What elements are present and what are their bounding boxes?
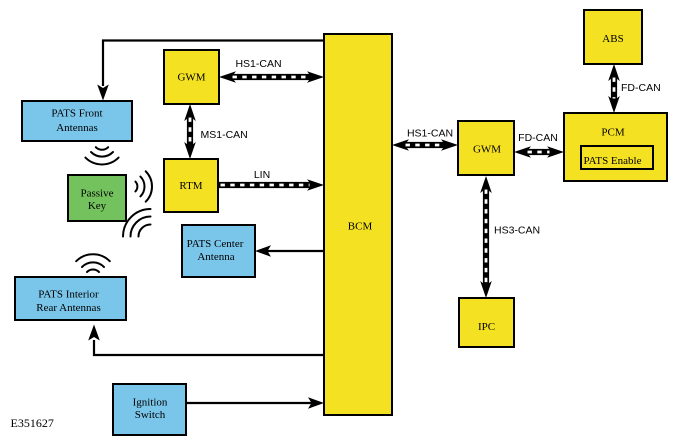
svg-text:Key: Key (88, 200, 107, 212)
radio waves from PATS Interior Rear Antennas (up) (76, 254, 110, 272)
svg-text:HS1-CAN: HS1-CAN (407, 128, 453, 140)
svg-text:BCM: BCM (348, 221, 373, 233)
svg-text:GWM: GWM (473, 144, 501, 156)
svg-text:Passive: Passive (81, 188, 114, 200)
svg-text:HS1-CAN: HS1-CAN (235, 58, 281, 70)
svg-text:RTM: RTM (179, 180, 202, 192)
svg-text:Antennas: Antennas (56, 122, 98, 134)
svg-text:MS1-CAN: MS1-CAN (201, 129, 248, 141)
svg-text:PCM: PCM (601, 127, 624, 139)
svg-text:Antenna: Antenna (197, 251, 234, 263)
svg-text:ABS: ABS (602, 33, 623, 45)
bus MS1-CAN GWM-RTM (184, 104, 196, 159)
svg-text:PATS Center: PATS Center (187, 238, 244, 250)
bus HS1-CAN BCM-GWM2 (392, 139, 458, 151)
radio waves from PATS Front Antennas (down) (85, 147, 118, 164)
PATS Front Antennas (22, 101, 132, 141)
bus FD-CAN ABS-PCM (608, 64, 620, 113)
bus FD-CAN GWM2-PCM (514, 146, 564, 158)
svg-text:HS3-CAN: HS3-CAN (494, 225, 540, 237)
module PCM (564, 113, 667, 181)
bus HS1-CAN GWM-BCM (219, 71, 324, 83)
wire BCM to PATS Center Antenna (266, 250, 324, 252)
arrowhead into PATS Front Antennas (97, 85, 109, 101)
svg-text:PATS Enable: PATS Enable (584, 155, 642, 167)
svg-text:IPC: IPC (478, 321, 495, 333)
radio waves toward Passive Key (up-left) (123, 209, 151, 237)
bus LIN RTM-BCM (218, 179, 324, 191)
arrowhead into BCM from Ignition Switch (308, 397, 324, 409)
svg-text:Rear Antennas: Rear Antennas (36, 302, 100, 314)
Ignition Switch (113, 384, 186, 435)
svg-text:Ignition: Ignition (133, 397, 168, 409)
wire BCM to PATS Front Antennas (left then down) (103, 41, 324, 87)
svg-text:GWM: GWM (177, 72, 205, 84)
module GWM (right) (458, 121, 514, 175)
svg-text:FD-CAN: FD-CAN (518, 132, 558, 144)
wire BCM to PATS Interior Rear Antennas (left then up) (94, 340, 324, 355)
wire Ignition Switch to BCM (186, 402, 313, 404)
PATS Interior Rear Antennas (15, 277, 126, 320)
bus HS3-CAN GWM2-IPC (480, 176, 492, 298)
radio waves from Passive Key (right) (135, 171, 152, 201)
module IPC (459, 298, 514, 347)
svg-text:PATS Interior: PATS Interior (38, 288, 99, 300)
svg-text:PATS Front: PATS Front (51, 108, 102, 120)
svg-text:LIN: LIN (254, 169, 270, 181)
module GWM (left) (164, 50, 219, 104)
PATS Center Antenna (182, 225, 255, 277)
svg-text:E351627: E351627 (11, 416, 54, 430)
module RTM (164, 159, 218, 212)
Passive Key (68, 175, 126, 221)
arrowhead into PATS Center Antenna (255, 245, 271, 257)
module ABS (584, 10, 642, 64)
module BCM (324, 34, 392, 415)
arrowhead into PATS Interior Rear Antennas (88, 325, 100, 341)
svg-text:FD-CAN: FD-CAN (621, 82, 661, 94)
PATS Enable box inside PCM (581, 146, 653, 169)
svg-text:Switch: Switch (135, 409, 166, 421)
